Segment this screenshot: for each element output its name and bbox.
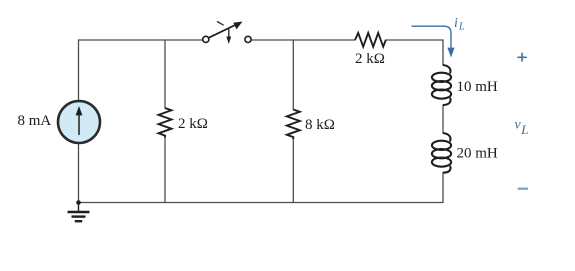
svg-text:2 kΩ: 2 kΩ (355, 51, 385, 67)
svg-text:8 mA: 8 mA (18, 113, 52, 129)
svg-text:2 kΩ: 2 kΩ (178, 116, 208, 132)
svg-text:i: i (454, 16, 458, 31)
svg-text:8 kΩ: 8 kΩ (305, 117, 335, 133)
svg-text:L: L (520, 122, 528, 137)
svg-text:20 mH: 20 mH (457, 146, 498, 162)
svg-text:L: L (458, 21, 465, 32)
svg-text:10 mH: 10 mH (457, 79, 498, 95)
